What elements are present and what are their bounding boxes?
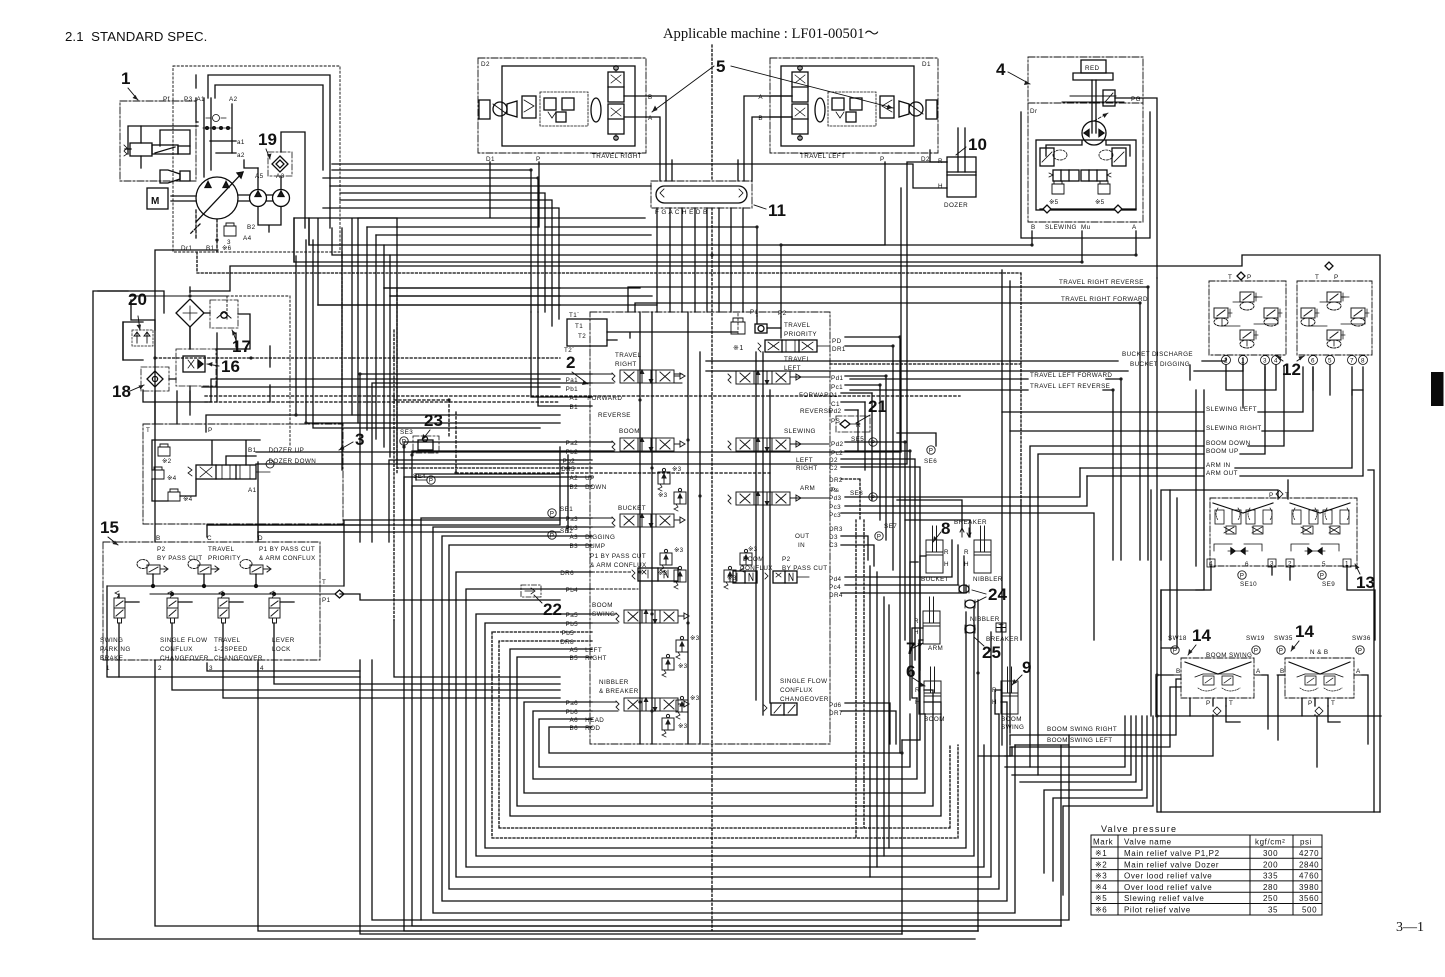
svg-text:Pilot relief valve: Pilot relief valve — [1124, 906, 1191, 915]
svg-text:BUCKET: BUCKET — [618, 505, 646, 512]
wire: long pilot line to right box — [230, 255, 1380, 812]
B A side lines — [1173, 674, 1262, 676]
regulator dash-dot box — [120, 101, 196, 181]
svg-text:N & B: N & B — [1310, 649, 1328, 656]
svg-text:BOOM: BOOM — [592, 602, 613, 609]
wire: pedal PT bus — [1156, 706, 1381, 722]
svg-text:Over lood relief valve: Over lood relief valve — [1124, 872, 1212, 881]
motor to valve lines — [1046, 141, 1130, 156]
pilot line dots row — [203, 127, 231, 129]
slewing motor circle — [1082, 121, 1106, 145]
wire: Pb5 loop — [485, 623, 966, 848]
svg-text:CHANGEOVER: CHANGEOVER — [160, 655, 209, 662]
wire: A2 loop — [404, 477, 978, 931]
svg-text:A5: A5 — [255, 173, 264, 180]
svg-text:※4: ※4 — [167, 475, 177, 482]
wire: A6 loop — [539, 714, 910, 767]
svg-text:335: 335 — [1263, 872, 1278, 881]
svg-text:B2: B2 — [247, 224, 256, 231]
wire: oval column D — [730, 208, 732, 312]
travel right inner box — [502, 66, 635, 146]
svg-text:300: 300 — [1263, 849, 1278, 858]
svg-text:ARM OUT: ARM OUT — [1206, 470, 1238, 477]
svg-text:P: P — [1247, 274, 1252, 281]
center valve cluster dashed — [540, 92, 588, 126]
svg-text:Pd2: Pd2 — [831, 441, 844, 448]
wire: travel right reverse — [628, 287, 1148, 560]
svg-text:4270: 4270 — [1299, 849, 1319, 858]
svg-text:P2: P2 — [778, 310, 787, 317]
wire: comp15 pass verticals — [119, 623, 560, 698]
shaft M to pump — [171, 196, 196, 201]
wire: right box inner vertical — [1161, 470, 1374, 812]
svg-text:TRAVEL LEFT REVERSE: TRAVEL LEFT REVERSE — [1030, 383, 1110, 390]
dotted enclosure — [227, 296, 290, 446]
svg-text:BOOM SWING LEFT: BOOM SWING LEFT — [1047, 737, 1112, 744]
wire: bs right left lines — [1005, 735, 1069, 756]
svg-text:DOZER: DOZER — [944, 202, 968, 209]
svg-text:35: 35 — [1268, 906, 1278, 915]
svg-text:Over lood relief valve: Over lood relief valve — [1124, 883, 1212, 892]
wire: Pa6 loop — [524, 702, 925, 793]
a1 port stub — [210, 140, 236, 142]
wire: single flow right — [841, 703, 896, 744]
internal links — [1222, 297, 1278, 346]
wire: DR6 loop — [456, 572, 991, 877]
right joystick — [1290, 503, 1350, 554]
svg-text:Pb4: Pb4 — [566, 587, 579, 594]
wire: travel tank lines — [358, 162, 645, 227]
SE10 / SE9 — [1238, 571, 1246, 580]
svg-text:DOZER UP: DOZER UP — [262, 447, 304, 454]
wire: comp15 C D supply — [207, 447, 568, 532]
shaft — [1092, 80, 1096, 133]
svg-text:4: 4 — [1274, 358, 1278, 365]
svg-text:SLEWING LEFT: SLEWING LEFT — [1206, 406, 1257, 413]
B2 drain — [258, 207, 281, 233]
svg-text:※6: ※6 — [1095, 906, 1107, 915]
svg-text:ROD: ROD — [583, 725, 600, 732]
wire: comp1 to center supply 2 — [323, 178, 538, 312]
wire: extra right-mid verticals — [870, 490, 1151, 877]
wire: pump discharge right runs — [330, 185, 651, 187]
svg-text:PS: PS — [831, 418, 840, 425]
ovoid shuttle — [815, 98, 825, 122]
two pilot elements — [1203, 676, 1214, 685]
wire: comp1 top loop lines — [196, 75, 330, 228]
svg-text:P: P — [880, 156, 885, 163]
svg-text:TRAVEL RIGHT FORWARD: TRAVEL RIGHT FORWARD — [1061, 296, 1148, 303]
wire: dozer down line — [256, 162, 947, 464]
wire: SE4 stub — [416, 474, 560, 480]
servo piston nozzle — [160, 170, 190, 183]
cluster solid box — [123, 287, 250, 402]
svg-text:※5: ※5 — [1095, 199, 1105, 206]
travel left inner box — [781, 66, 914, 146]
wire: dotted center risers — [856, 520, 864, 838]
bus lines — [107, 586, 344, 594]
swash link dashed — [190, 224, 200, 234]
travel right dash-dot border — [478, 58, 646, 153]
direction signal labels right side — [1030, 279, 1262, 744]
shaft between pumps — [238, 195, 273, 201]
wire: A5 loop — [510, 649, 941, 816]
svg-text:B1: B1 — [248, 447, 257, 454]
overload relief pair bucket — [660, 549, 672, 572]
wire: oval column H — [706, 208, 708, 312]
svg-text:※5: ※5 — [1095, 894, 1107, 903]
svg-text:B3: B3 — [569, 543, 578, 550]
svg-text:Pa5: Pa5 — [566, 612, 579, 619]
ovoid shuttle — [591, 98, 601, 122]
wire: SE6 riser — [897, 433, 936, 446]
wire: A3 loop — [442, 536, 1007, 901]
svg-text:6: 6 — [906, 662, 915, 681]
svg-text:※3: ※3 — [674, 547, 684, 554]
svg-text:SWING: SWING — [592, 611, 615, 618]
wire: slewing Mu line — [294, 218, 1082, 262]
svg-text:BY PASS CUT: BY PASS CUT — [157, 555, 202, 562]
svg-text:T: T — [146, 427, 150, 434]
svg-text:TRAVEL RIGHT REVERSE: TRAVEL RIGHT REVERSE — [1059, 279, 1144, 286]
svg-text:16: 16 — [221, 357, 240, 376]
svg-text:B2: B2 — [569, 484, 578, 491]
svg-text:a2: a2 — [237, 152, 245, 159]
svg-text:Pc3: Pc3 — [829, 512, 841, 519]
wire: dotted arrow line 23 — [394, 400, 770, 473]
svg-text:CONFLUX: CONFLUX — [780, 687, 813, 694]
svg-text:B: B — [1176, 668, 1181, 675]
wire: travel right B/A to oval — [646, 96, 666, 181]
svg-text:4: 4 — [996, 60, 1006, 79]
wire: B1 riser from travel — [538, 312, 592, 406]
svg-text:P: P — [208, 427, 213, 434]
svg-text:8: 8 — [1361, 358, 1365, 365]
gear pump circle A5 — [250, 190, 267, 207]
travel left dash-dot border — [770, 58, 938, 153]
wire: arm in line — [1080, 367, 1352, 468]
svg-text:TRAVEL LEFT FORWARD: TRAVEL LEFT FORWARD — [1030, 372, 1112, 379]
svg-text:Pb5: Pb5 — [562, 630, 575, 637]
svg-text:ARM: ARM — [928, 645, 943, 652]
svg-text:3: 3 — [1263, 358, 1267, 365]
svg-text:Applicable machine : LF01-0050: Applicable machine : LF01-00501～ — [663, 26, 879, 42]
svg-text:2.1 STANDARD SPEC.: 2.1 STANDARD SPEC. — [65, 29, 207, 44]
wire: travel left P down — [781, 162, 885, 317]
comp1 internal piping — [204, 98, 232, 177]
20 check pair — [132, 330, 153, 346]
svg-text:BOOM: BOOM — [924, 716, 945, 723]
anti-cavitation check ※5 left — [1052, 181, 1064, 194]
wire: oval column B — [742, 208, 744, 312]
svg-text:7: 7 — [1350, 358, 1354, 365]
wire: pilot block risers — [1226, 365, 1276, 390]
svg-text:PG: PG — [1131, 96, 1141, 103]
bottom row solenoid valves — [114, 591, 125, 623]
svg-text:RIGHT: RIGHT — [615, 361, 637, 368]
svg-text:SE10: SE10 — [1240, 581, 1257, 588]
svg-text:A2: A2 — [569, 475, 578, 482]
filter diamond — [176, 299, 204, 327]
svg-text:PRIORITY: PRIORITY — [784, 331, 817, 338]
svg-text:1: 1 — [121, 69, 130, 88]
wire: d3 c3 — [841, 536, 874, 566]
orifice symbol — [206, 117, 226, 119]
comp 21 bypass check — [836, 416, 870, 432]
svg-text:※4: ※4 — [183, 496, 193, 503]
wire: A1 riser from travel — [531, 312, 592, 397]
RED reduction box — [1081, 60, 1106, 73]
svg-text:LEFT: LEFT — [796, 457, 813, 464]
svg-text:23: 23 — [424, 411, 443, 430]
svg-text:12: 12 — [1282, 360, 1301, 379]
A port line — [770, 95, 792, 97]
wire: comp1 exit stack verticals — [294, 218, 397, 470]
svg-text:DUMP: DUMP — [583, 543, 605, 550]
wire: travel left forward — [850, 379, 1121, 560]
label 5 with arrows to both travel blocks — [652, 57, 893, 112]
gear pump circle A3 — [273, 190, 290, 207]
wire: right staircase steps — [1005, 716, 1153, 895]
wire: slewing left line — [1002, 367, 1303, 412]
svg-text:A3: A3 — [569, 534, 578, 541]
wire: comp3 P riser — [206, 415, 296, 432]
dozer valve dash-dot box — [143, 424, 343, 524]
svg-text:LOCK: LOCK — [272, 646, 291, 653]
wire: Pb5b loop dotted — [492, 632, 958, 838]
REO gearbox — [479, 100, 490, 119]
wire: long drain dotted — [197, 273, 1021, 500]
svg-text:22: 22 — [543, 600, 562, 619]
wire: pedal riser extras — [978, 698, 1317, 767]
svg-text:Ps: Ps — [829, 487, 837, 494]
wire: mid horizontals to center block — [318, 235, 651, 305]
svg-text:D2: D2 — [829, 457, 838, 464]
solenoid block dash-dot boundary — [103, 542, 320, 660]
svg-text:Pa6: Pa6 — [566, 700, 579, 707]
regulator piping — [141, 126, 198, 168]
svg-text:2: 2 — [158, 665, 162, 672]
brake valve cluster right — [880, 96, 894, 118]
wire: Pa3 loop — [421, 518, 1069, 920]
svg-text:SLEWING: SLEWING — [784, 428, 816, 435]
svg-text:UP: UP — [583, 475, 595, 482]
wire: Pb2b left — [389, 460, 592, 542]
svg-text:P: P — [1269, 492, 1274, 499]
svg-text:SE3: SE3 — [400, 429, 413, 436]
svg-text:kgf/cm²: kgf/cm² — [1255, 838, 1285, 847]
svg-text:B: B — [648, 94, 653, 101]
bucket cylinder — [926, 526, 943, 573]
svg-text:A5: A5 — [569, 647, 578, 654]
main pump circle — [196, 177, 238, 219]
svg-text:P2: P2 — [782, 556, 791, 563]
svg-text:Pc2: Pc2 — [831, 450, 843, 457]
center valve cluster dashed — [828, 92, 876, 126]
svg-text:2840: 2840 — [1299, 860, 1319, 869]
left joystick — [1213, 503, 1273, 554]
wire: boom down line — [1030, 367, 1284, 767]
motor M box — [147, 188, 168, 209]
svg-text:B6: B6 — [569, 725, 578, 732]
nibbler cylinder — [974, 526, 991, 573]
svg-text:B: B — [1031, 224, 1036, 231]
svg-text:& ARM CONFLUX: & ARM CONFLUX — [259, 555, 316, 562]
SE6 sensor — [927, 446, 935, 455]
svg-text:Mark: Mark — [1093, 838, 1114, 847]
svg-text:13: 13 — [1356, 573, 1375, 592]
svg-text:TRAVEL LEFT: TRAVEL LEFT — [800, 153, 845, 160]
svg-text:17: 17 — [232, 337, 251, 356]
tank box T1 T2 — [567, 319, 607, 346]
svg-text:T: T — [322, 579, 326, 586]
wire: B2 loop — [412, 486, 1061, 926]
coupler 24 — [959, 585, 969, 593]
nibbler overloads — [676, 696, 688, 719]
section C/D internal frames — [207, 525, 360, 537]
18 diamond box — [141, 367, 169, 391]
wire: joystick block down stubs — [1161, 567, 1375, 640]
svg-text:6: 6 — [1311, 358, 1315, 365]
wire: block right stubs — [841, 337, 900, 410]
svg-text:SE9: SE9 — [1322, 581, 1335, 588]
svg-text:Pa2: Pa2 — [566, 440, 579, 447]
svg-text:CHANGEOVER: CHANGEOVER — [214, 655, 263, 662]
wire: breaker line — [897, 500, 970, 537]
svg-text:A2: A2 — [229, 96, 238, 103]
wire: cluster extra h-lines — [98, 291, 270, 424]
svg-text:11: 11 — [768, 201, 786, 220]
svg-text:18: 18 — [112, 382, 131, 401]
svg-text:DR3: DR3 — [829, 526, 843, 533]
svg-text:Main relief valve P1,P2: Main relief valve P1,P2 — [1124, 849, 1220, 858]
svg-text:ARM IN: ARM IN — [1206, 462, 1230, 469]
svg-text:LEFT: LEFT — [583, 647, 602, 654]
svg-text:NIBBLER: NIBBLER — [599, 679, 629, 686]
wire: slewing A line — [332, 228, 1136, 255]
svg-text:P1 BY PASS CUT: P1 BY PASS CUT — [259, 546, 315, 553]
svg-text:2: 2 — [566, 353, 575, 372]
wire: boom cyl feeds — [924, 690, 941, 714]
svg-text:IN: IN — [798, 542, 805, 549]
svg-text:4760: 4760 — [1299, 872, 1319, 881]
svg-text:ARM: ARM — [800, 485, 815, 492]
svg-text:※1: ※1 — [733, 345, 744, 352]
svg-text:SE8: SE8 — [850, 490, 863, 497]
check valve 17 box — [210, 300, 238, 328]
svg-text:CHANGEOVER: CHANGEOVER — [780, 696, 829, 703]
svg-text:6: 6 — [1245, 561, 1249, 568]
travel left motor circle — [909, 102, 923, 116]
overload ※4 pair — [152, 467, 164, 479]
svg-text:SWING: SWING — [100, 637, 123, 644]
svg-text:T: T — [1331, 700, 1335, 707]
svg-text:Pb1: Pb1 — [566, 386, 579, 393]
svg-text:a1: a1 — [237, 139, 245, 146]
svg-text:TRAVEL: TRAVEL — [214, 637, 241, 644]
svg-text:※4: ※4 — [1095, 883, 1107, 892]
black index tab — [1431, 372, 1444, 406]
svg-text:SWING: SWING — [1001, 724, 1024, 731]
svg-text:C1: C1 — [831, 401, 840, 408]
svg-text:Pf: Pf — [163, 96, 170, 103]
svg-text:3980: 3980 — [1299, 883, 1319, 892]
svg-text:PRIORITY: PRIORITY — [208, 555, 241, 562]
wire: oval column A — [681, 208, 683, 312]
wire: Pb4 loop — [466, 589, 984, 867]
boom cylinder — [924, 667, 941, 714]
svg-text:Pb6: Pb6 — [566, 709, 579, 716]
gear teeth — [1062, 96, 1124, 102]
wire: right block risers down — [1243, 365, 1363, 408]
wire: B3 loop — [449, 545, 999, 889]
wire: oval column G — [669, 208, 671, 312]
svg-text:C: C — [207, 535, 212, 542]
svg-text:B1: B1 — [206, 245, 215, 252]
wire: pedal supply bus — [1156, 675, 1368, 744]
svg-text:※3: ※3 — [690, 635, 700, 642]
wire: bucket digging — [706, 358, 1243, 371]
svg-text:TRAVEL RIGHT: TRAVEL RIGHT — [592, 153, 642, 160]
svg-text:F G A C H E D B: F G A C H E D B — [655, 209, 708, 216]
svg-text:TRAVEL: TRAVEL — [784, 356, 811, 363]
svg-text:T: T — [1315, 274, 1319, 281]
svg-text:Valve name: Valve name — [1124, 838, 1172, 847]
right relief cluster — [1112, 148, 1126, 166]
wire: SE3 line into Pa2 — [404, 442, 614, 526]
svg-text:M: M — [151, 196, 159, 207]
svg-text:A6: A6 — [569, 717, 578, 724]
regulator valve body — [124, 143, 190, 156]
dozer spool — [188, 460, 274, 479]
svg-text:C2: C2 — [829, 465, 838, 472]
svg-text:D1: D1 — [922, 61, 931, 68]
svg-text:D2: D2 — [481, 61, 490, 68]
connect stems — [119, 594, 294, 602]
svg-text:8: 8 — [941, 519, 950, 538]
svg-text:P: P — [1308, 700, 1313, 707]
wire: travel left A/B to oval — [744, 96, 792, 181]
wire: outer left frame — [93, 291, 975, 939]
svg-text:※2: ※2 — [1095, 860, 1107, 869]
brake valve cluster left — [522, 96, 536, 118]
svg-text:DIGGING: DIGGING — [583, 534, 615, 541]
svg-text:5: 5 — [1322, 561, 1326, 568]
wire: DR8 loop dotted — [499, 641, 950, 828]
svg-text:TRAVEL: TRAVEL — [615, 352, 642, 359]
svg-text:PARKING: PARKING — [100, 646, 131, 653]
travel right motor circle — [493, 102, 507, 116]
pump case drain dashed — [216, 219, 218, 252]
pedal X — [1185, 662, 1251, 674]
slewing dash-dot border — [1028, 57, 1143, 222]
svg-text:SLEWING RIGHT: SLEWING RIGHT — [1206, 425, 1262, 432]
arm overloads — [740, 549, 752, 572]
svg-text:BRAKE: BRAKE — [100, 655, 123, 662]
motor cone — [899, 101, 909, 117]
svg-text:P2: P2 — [157, 546, 166, 553]
svg-text:RIGHT: RIGHT — [583, 655, 607, 662]
svg-text:Main relief valve Dozer: Main relief valve Dozer — [1124, 860, 1219, 869]
wire: comp15 T P right — [340, 520, 560, 600]
svg-text:& BREAKER: & BREAKER — [599, 688, 639, 695]
wire: DR5 dotted left — [397, 467, 592, 469]
inner valve box — [1036, 140, 1136, 210]
svg-text:24: 24 — [988, 585, 1007, 604]
svg-text:B: B — [758, 115, 763, 122]
wire: PG supply — [1137, 98, 1157, 278]
wire: block internal galleries — [640, 312, 770, 744]
